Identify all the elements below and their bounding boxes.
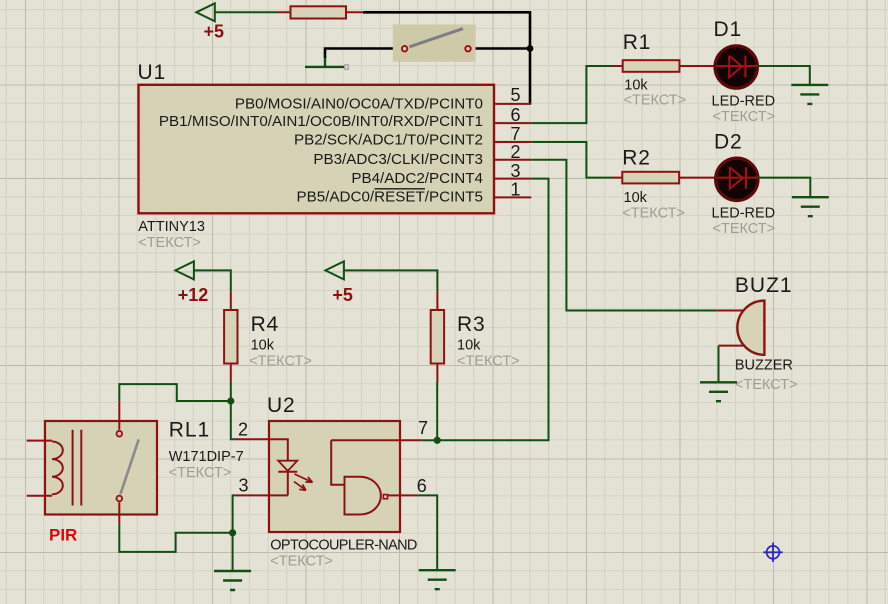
svg-text:1: 1 [510, 180, 520, 200]
svg-text:W171DIP-7: W171DIP-7 [169, 449, 244, 465]
wire node B down to U2 pin 2 [231, 401, 236, 439]
svg-text:3: 3 [510, 161, 520, 181]
resistor R4 leads [230, 291, 232, 382]
wire U1 pin 2 to buzzer BUZ1 [531, 160, 717, 311]
wire resistor to switch junction (black) [363, 12, 530, 48]
wire junction down to U1 pin 5 (black) [529, 49, 532, 104]
resistor (top, unlabeled) body [291, 6, 347, 18]
svg-text:R3: R3 [457, 313, 485, 336]
U1 pin 5 stub [494, 103, 531, 105]
svg-text:<ТЕКСТ>: <ТЕКСТ> [735, 377, 798, 393]
switch SW1 [393, 25, 476, 62]
ground (U2 pin 6) [419, 570, 456, 589]
svg-text:10k: 10k [624, 78, 648, 94]
svg-text:BUZ1: BUZ1 [735, 274, 793, 297]
svg-text:R1: R1 [623, 31, 651, 54]
svg-text:<ТЕКСТ>: <ТЕКСТ> [457, 354, 520, 370]
svg-text:<ТЕКСТ>: <ТЕКСТ> [622, 206, 685, 222]
svg-text:<ТЕКСТ>: <ТЕКСТ> [713, 221, 776, 237]
ground (D1) [791, 85, 828, 104]
svg-text:+5: +5 [332, 285, 353, 305]
svg-text:<ТЕКСТ>: <ТЕКСТ> [713, 109, 776, 125]
wire BUZ1 to ground [718, 346, 720, 383]
wire +5 to top resistor [215, 11, 278, 13]
LED D2 [716, 158, 758, 200]
svg-text:PB3/ADC3/CLKI/PCINT3: PB3/ADC3/CLKI/PCINT3 [313, 151, 483, 168]
svg-text:+12: +12 [178, 285, 209, 305]
resistor R2 body [622, 172, 679, 184]
svg-text:<ТЕКСТ>: <ТЕКСТ> [249, 354, 312, 370]
svg-text:PB4/ADC2/PCINT4: PB4/ADC2/PCINT4 [351, 170, 483, 187]
svg-text:7: 7 [418, 418, 428, 438]
svg-text:<ТЕКСТ>: <ТЕКСТ> [270, 554, 333, 570]
svg-text:PB5/ADC0/RESET/PCINT5: PB5/ADC0/RESET/PCINT5 [296, 189, 483, 206]
svg-text:ATTINY13: ATTINY13 [138, 219, 205, 235]
U1 pin 2 stub [494, 159, 531, 161]
svg-text:RL1: RL1 [169, 419, 211, 442]
wire switch right terminal to junction (black) [472, 47, 531, 50]
svg-text:2: 2 [510, 142, 520, 162]
wire U2 pin 6 to ground [418, 495, 437, 570]
svg-text:OPTOCOUPLER-NAND: OPTOCOUPLER-NAND [270, 538, 417, 554]
buzzer BUZ1 body [737, 301, 764, 355]
overline on RESET [375, 188, 426, 190]
U1 pin numbers [510, 85, 520, 199]
wire RL1 bottom contact to node C [119, 525, 232, 552]
svg-text:7: 7 [510, 124, 520, 144]
svg-text:R4: R4 [251, 313, 279, 336]
wire node C to ground [232, 533, 234, 571]
resistor (top, unlabeled) leads [278, 11, 363, 13]
wire R4 to node B [230, 382, 232, 401]
svg-text:5: 5 [510, 85, 520, 105]
U1 pin 3 stub [494, 178, 531, 180]
wire node A to U2 pin 7 [422, 439, 437, 441]
svg-text:<ТЕКСТ>: <ТЕКСТ> [624, 93, 687, 109]
svg-text:10k: 10k [624, 190, 648, 206]
svg-text:PIR: PIR [49, 526, 77, 545]
svg-text:<ТЕКСТ>: <ТЕКСТ> [169, 465, 232, 481]
svg-text:3: 3 [238, 476, 248, 496]
LED D1 [715, 46, 757, 88]
relay RL1 body [27, 401, 157, 524]
wire D2 to ground [758, 178, 810, 198]
junction node (black) [527, 45, 534, 52]
svg-text:PB0/MOSI/AIN0/OC0A/TXD/PCINT0: PB0/MOSI/AIN0/OC0A/TXD/PCINT0 [235, 95, 483, 112]
svg-text:10k: 10k [251, 337, 275, 353]
wire R3 to +5 [344, 270, 438, 291]
power terminal +5 (middle) [325, 261, 353, 304]
wire U1 pin 3 down to node A [437, 179, 548, 441]
svg-text:10k: 10k [457, 337, 481, 353]
resistor R1 leads [612, 65, 715, 67]
svg-text:2: 2 [238, 420, 248, 440]
svg-text:PB2/SCK/ADC1/T0/PCINT2: PB2/SCK/ADC1/T0/PCINT2 [294, 131, 483, 148]
origin marker (blue crosshair) [763, 543, 782, 562]
wire +12 to R4 [194, 270, 231, 291]
svg-text:U2: U2 [267, 394, 295, 417]
power terminal +12 [175, 261, 208, 304]
resistor R3 body [431, 310, 444, 364]
ground (D2) [792, 197, 829, 216]
wire node B to RL1 contact [119, 384, 231, 401]
svg-text:6: 6 [417, 476, 427, 496]
junction node A (U2 pin7 / R3) [434, 437, 441, 444]
svg-text:D2: D2 [714, 131, 742, 154]
svg-text:BUZZER: BUZZER [735, 357, 793, 373]
svg-text:6: 6 [510, 105, 520, 125]
ground (node C) [214, 571, 251, 590]
wire node C up to U2 pin 3 [233, 495, 236, 532]
svg-text:<ТЕКСТ>: <ТЕКСТ> [138, 235, 201, 251]
U1 pin 7 stub [494, 141, 531, 143]
IC U1 ATTINY13 body [139, 85, 495, 214]
svg-text:LED-RED: LED-RED [712, 206, 776, 222]
ground (below switch) [305, 58, 348, 70]
wire D1 to ground [758, 66, 810, 85]
svg-text:+5: +5 [204, 22, 225, 42]
wire U1 pin 6 to R1 [531, 66, 612, 123]
svg-text:U1: U1 [138, 61, 166, 84]
svg-text:R2: R2 [622, 147, 650, 170]
buzzer BUZ1 pins [717, 311, 743, 346]
wire node A up to R3 [436, 382, 438, 440]
U1 pin 6 stub [494, 122, 531, 124]
ground (BUZ1) [700, 382, 737, 401]
svg-text:D1: D1 [714, 18, 742, 41]
junction node C (RL1 / U2 pin3 / ground) [229, 529, 236, 536]
power +5 terminal (top) [196, 3, 224, 41]
U1 pin labels [159, 95, 483, 205]
U1 pin 1 stub [494, 196, 531, 198]
svg-text:LED-RED: LED-RED [712, 93, 776, 109]
wire U1 pin 7 to R2 [531, 142, 612, 178]
resistor R4 body [224, 310, 237, 364]
junction node B (R4 / RL1 / U2 pin2) [227, 397, 234, 404]
resistor R3 leads [436, 291, 438, 382]
wire switch left terminal to ground (black) [325, 49, 405, 59]
resistor R2 leads [612, 177, 716, 179]
resistor R1 body [623, 60, 680, 72]
svg-text:PB1/MISO/INT0/AIN1/OC0B/INT0/R: PB1/MISO/INT0/AIN1/OC0B/INT0/RXD/PCINT1 [159, 113, 483, 130]
optocoupler U2 body [235, 421, 422, 532]
